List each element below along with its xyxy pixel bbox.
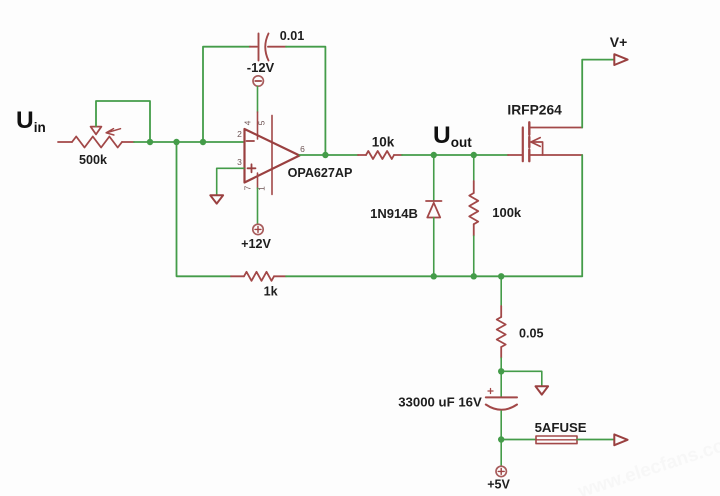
pin 5/1 line <box>271 115 273 194</box>
svg-text:5AFUSE: 5AFUSE <box>535 420 587 435</box>
svg-text:33000 uF 16V: 33000 uF 16V <box>398 395 482 410</box>
capacitor 0.01 <box>250 34 286 61</box>
wire shunt top <box>500 276 502 306</box>
svg-text:1k: 1k <box>264 285 279 299</box>
wire bottom rail <box>286 275 582 277</box>
svg-text:6: 6 <box>300 144 305 154</box>
node diode junction top <box>431 152 437 158</box>
svg-text:V+: V+ <box>610 34 628 50</box>
node rail diode <box>431 273 437 279</box>
wire cap top <box>500 371 502 397</box>
svg-text:+12V: +12V <box>241 237 271 251</box>
svg-text:1N914B: 1N914B <box>370 206 418 221</box>
source +5V <box>496 466 506 476</box>
wire diode cathode <box>433 218 435 277</box>
op-amp U1 OPA627AP <box>245 129 300 183</box>
source -12V <box>253 76 263 86</box>
node 100k junction top <box>471 152 477 158</box>
svg-text:3: 3 <box>237 157 242 167</box>
ground output <box>536 386 549 394</box>
resistor 10k <box>358 151 402 159</box>
wire pot wiper loop <box>96 101 150 142</box>
resistor 1k <box>231 272 286 281</box>
svg-text:OPA627AP: OPA627AP <box>288 166 353 180</box>
wire output net <box>402 154 508 156</box>
watermark <box>575 430 720 496</box>
terminal arrow fuse output <box>614 434 627 445</box>
wire to +5V <box>500 440 502 467</box>
wire drain to V+ <box>582 60 613 128</box>
node cap node <box>498 368 504 374</box>
potentiometer 500k <box>58 127 134 148</box>
wire to ground2 <box>501 371 542 386</box>
node rail shunt <box>498 273 504 279</box>
svg-text:10k: 10k <box>372 135 395 150</box>
svg-text:100k: 100k <box>492 205 522 220</box>
wire input net <box>134 141 244 143</box>
wire cap bottom <box>500 411 502 440</box>
node cap-loop output junction <box>322 152 328 158</box>
svg-text:0.05: 0.05 <box>519 327 544 341</box>
wire cap loop right <box>286 47 325 155</box>
wire source down <box>581 155 583 276</box>
terminal arrow V+ <box>614 54 627 65</box>
wire op-amp output <box>300 154 359 156</box>
transistor Q1 IRFP264 <box>508 122 582 161</box>
wire pin3 to ground <box>217 168 244 195</box>
svg-text:4: 4 <box>243 120 253 125</box>
fuse 5A <box>536 436 577 444</box>
wire diode anode <box>433 155 435 201</box>
wire shunt bottom <box>500 358 502 371</box>
svg-text:Uout: Uout <box>433 122 472 150</box>
ground pin3 <box>210 195 223 203</box>
node rail 100k <box>471 273 477 279</box>
wire pin4 supply <box>257 87 259 112</box>
svg-text:2: 2 <box>237 129 242 139</box>
svg-text:5: 5 <box>257 120 267 125</box>
node cap-loop junction <box>200 139 206 145</box>
source +12V <box>253 224 263 234</box>
wire fuse left <box>501 439 536 441</box>
resistor 0.05 <box>497 306 506 358</box>
wire cap loop left <box>203 47 250 142</box>
svg-text:0.01: 0.01 <box>280 29 305 43</box>
wire 100k top <box>473 155 475 181</box>
capacitor 33000uF <box>486 389 517 410</box>
diode 1N914B <box>426 201 442 218</box>
svg-text:-12V: -12V <box>247 60 275 75</box>
svg-text:IRFP264: IRFP264 <box>507 103 562 118</box>
svg-text:500k: 500k <box>79 153 108 167</box>
wire 100k bottom <box>473 236 475 276</box>
svg-text:Uin: Uin <box>16 107 46 135</box>
wire feedback riser <box>177 142 232 276</box>
wire fuse right <box>577 439 614 441</box>
pin 4 lead <box>257 112 259 139</box>
pin 7 lead <box>257 173 259 188</box>
svg-text:+5V: +5V <box>487 478 510 492</box>
resistor 100k <box>469 181 478 236</box>
node fuse junction <box>498 436 504 442</box>
wire pin7 supply <box>257 188 259 224</box>
node feedback junction <box>173 139 179 145</box>
svg-text:7: 7 <box>243 185 253 190</box>
node pot-wiper junction <box>147 139 153 145</box>
